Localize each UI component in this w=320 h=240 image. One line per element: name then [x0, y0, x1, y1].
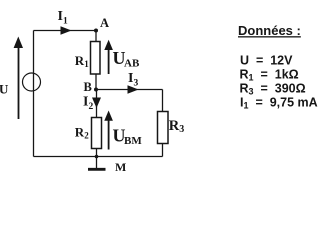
wire resistor R2 bottom to bottom wire [96, 149, 98, 157]
svg-text:R1 = 1kΩ: R1 = 1kΩ [240, 67, 299, 82]
node M junction dot [95, 155, 99, 159]
resistor R3 body [158, 112, 169, 144]
current I3 arrowhead [128, 85, 139, 93]
svg-text:I2: I2 [83, 95, 93, 113]
svg-text:I1: I1 [58, 9, 68, 27]
wire node B down to resistor R2 top [96, 90, 98, 118]
svg-text:U: U [0, 82, 9, 97]
voltage arrow UBM head [104, 111, 113, 121]
svg-text:I1 = 9,75 mA: I1 = 9,75 mA [240, 96, 318, 111]
source voltage arrow U shaft [18, 46, 20, 119]
wire node A to resistor R1 top [95, 31, 97, 42]
voltage source circle [23, 73, 41, 91]
svg-text:A: A [100, 16, 109, 30]
ground stub wire [96, 157, 98, 169]
svg-text:M: M [115, 160, 126, 174]
svg-text:R3 = 390Ω: R3 = 390Ω [240, 81, 306, 96]
svg-text:U = 12V: U = 12V [240, 53, 293, 67]
voltage arrow UBM shaft [108, 120, 110, 150]
ground bar [88, 168, 106, 171]
svg-text:R3: R3 [169, 118, 184, 135]
svg-text:UAB: UAB [113, 48, 140, 70]
node A junction dot [94, 29, 98, 33]
current I2 arrowhead [92, 98, 101, 109]
wire resistor R1 bottom to node B [95, 74, 97, 90]
resistor R1 body [91, 42, 101, 75]
wire node B to right branch corner [96, 89, 163, 91]
svg-text:B: B [84, 80, 92, 94]
svg-text:I3: I3 [128, 71, 138, 89]
wire left: top corner down to bottom wire [33, 31, 35, 157]
resistor R2 body [92, 118, 102, 149]
wire resistor R3 bottom to bottom wire [162, 144, 164, 157]
current I1 arrowhead [61, 26, 72, 34]
voltage arrow UAB head [104, 40, 113, 50]
wire right branch corner down to resistor R3 top [162, 90, 164, 112]
svg-text:Données :: Données : [238, 23, 301, 38]
source voltage arrow U head [14, 37, 23, 49]
wire top: left corner to node A [34, 30, 97, 32]
svg-text:R1: R1 [75, 53, 89, 69]
wire bottom: left corner to right branch [34, 156, 163, 158]
voltage arrow UAB shaft [108, 49, 110, 75]
node B junction dot [94, 88, 98, 92]
svg-text:R2: R2 [75, 125, 89, 141]
svg-text:UBM: UBM [113, 126, 143, 148]
